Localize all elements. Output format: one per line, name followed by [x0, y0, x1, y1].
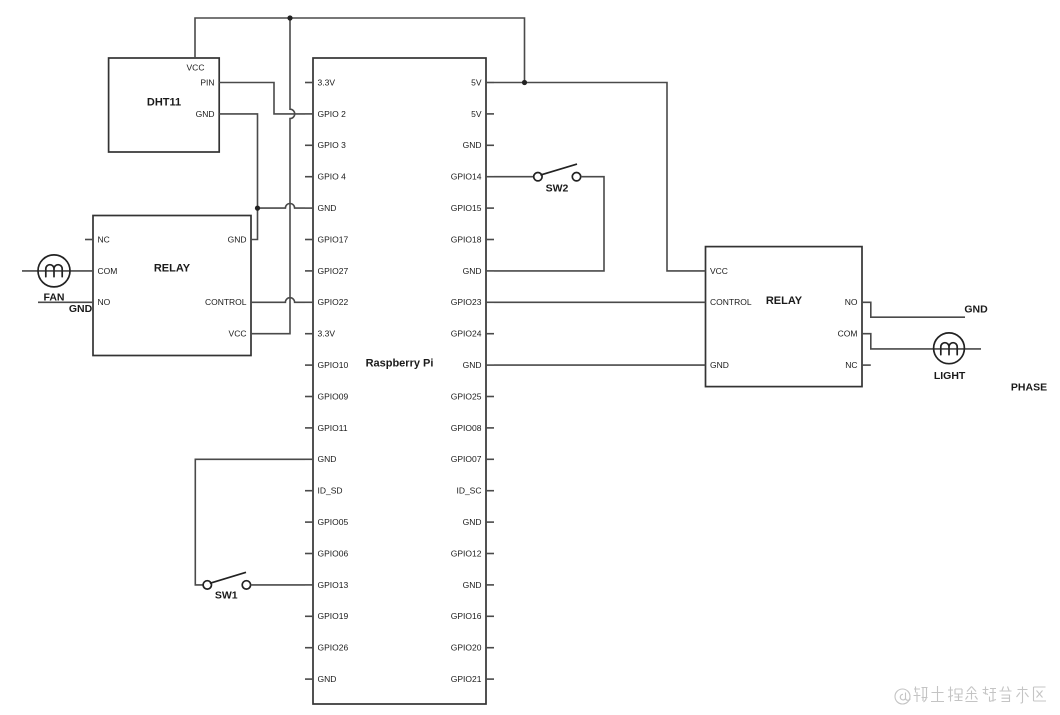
- relay module 1 (fan) box: [93, 216, 251, 356]
- Pi left pin 6 GPIO17: [305, 239, 313, 241]
- Pi left pin 18 GPIO19: [305, 615, 313, 617]
- svg-text:VCC: VCC: [710, 266, 728, 276]
- svg-text:GPIO23: GPIO23: [451, 297, 482, 307]
- svg-text:GND: GND: [228, 234, 247, 244]
- svg-text:GPIO 4: GPIO 4: [318, 172, 347, 182]
- Pi left pin 3 GPIO 3: [305, 144, 313, 146]
- wire DHT11 PIN to GPIO 2: [219, 83, 305, 114]
- Pi right pin 4 GPIO14: [486, 176, 494, 178]
- Pi right pin 14 ID_SC: [486, 490, 494, 492]
- Pi left pin 14 ID_SD: [305, 490, 313, 492]
- svg-text:GND: GND: [318, 203, 337, 213]
- svg-text:GPIO16: GPIO16: [451, 611, 482, 621]
- svg-text:NC: NC: [845, 360, 857, 370]
- svg-text:GPIO13: GPIO13: [318, 580, 349, 590]
- svg-text:CONTROL: CONTROL: [710, 297, 752, 307]
- switch SW2 throw contact: [572, 173, 580, 181]
- Pi left pin 19 GPIO26: [305, 647, 313, 649]
- svg-text:NC: NC: [98, 234, 110, 244]
- svg-text:GPIO22: GPIO22: [318, 297, 349, 307]
- svg-text:GPIO11: GPIO11: [318, 423, 348, 433]
- relay module 2 (light) box: [706, 247, 863, 387]
- Pi right pin 7 GND: [486, 270, 494, 272]
- svg-text:GND: GND: [463, 580, 482, 590]
- Pi left pin 9 3.3V: [305, 333, 313, 335]
- svg-text:5V: 5V: [471, 77, 482, 87]
- relay 2 pin NC label + tick: [862, 364, 871, 366]
- svg-text:GPIO12: GPIO12: [451, 548, 482, 558]
- svg-text:GPIO27: GPIO27: [318, 266, 349, 276]
- Pi left pin 13 GND: [305, 458, 313, 460]
- Pi right pin 5 GPIO15: [486, 207, 494, 209]
- wire rail branch down to relay 1 VCC (hops GPIO2, GND, GPIO22 wires): [251, 18, 295, 334]
- Pi right pin 8 GPIO23: [486, 301, 494, 303]
- svg-text:5V: 5V: [471, 109, 482, 119]
- svg-text:DHT11: DHT11: [147, 96, 181, 108]
- svg-text:GND: GND: [69, 303, 93, 315]
- Pi left pin 17 GPIO13: [305, 584, 313, 586]
- svg-text:GPIO09: GPIO09: [318, 391, 349, 401]
- svg-text:GND: GND: [463, 360, 482, 370]
- svg-text:GND: GND: [710, 360, 729, 370]
- svg-text:GPIO 2: GPIO 2: [318, 109, 347, 119]
- Pi right pin 9 GPIO24: [486, 333, 494, 335]
- svg-text:CONTROL: CONTROL: [205, 297, 247, 307]
- Pi right pin 2 5V: [486, 113, 494, 115]
- svg-text:NO: NO: [98, 297, 111, 307]
- fan motor symbol: [38, 255, 70, 287]
- svg-text:SW1: SW1: [215, 590, 238, 602]
- wire GPIO23 to relay 2 CONTROL: [494, 301, 706, 303]
- Pi right pin 17 GND: [486, 584, 494, 586]
- svg-text:COM: COM: [838, 329, 858, 339]
- fan wire through motor to relay 1 COM: [22, 270, 93, 272]
- svg-text:VCC: VCC: [187, 63, 205, 73]
- svg-text:ID_SD: ID_SD: [318, 486, 343, 496]
- svg-text:LIGHT: LIGHT: [934, 370, 966, 382]
- svg-text:NO: NO: [845, 297, 858, 307]
- Pi left pin 20 GND: [305, 678, 313, 680]
- svg-text:GPIO26: GPIO26: [318, 643, 349, 653]
- svg-text:SW2: SW2: [546, 183, 569, 195]
- svg-text:GPIO10: GPIO10: [318, 360, 349, 370]
- svg-text:3.3V: 3.3V: [318, 77, 336, 87]
- Pi left pin 8 GPIO22: [305, 301, 313, 303]
- Pi right pin 12 GPIO08: [486, 427, 494, 429]
- Pi left pin 4 GPIO 4: [305, 176, 313, 178]
- wire Pi GND loop down to SW1: [195, 459, 305, 585]
- switch SW1 pole contact: [203, 581, 211, 589]
- Pi left pin 12 GPIO11: [305, 427, 313, 429]
- svg-text:GND: GND: [318, 674, 337, 684]
- Pi left pin 5 GND: [305, 207, 313, 209]
- Pi left pin 2 GPIO 2: [305, 113, 313, 115]
- svg-text:GPIO15: GPIO15: [451, 203, 482, 213]
- wire SW2 back to Pi GND pin: [494, 177, 604, 271]
- Pi left pin 1 3.3V: [305, 82, 313, 84]
- switch SW1 throw contact: [242, 581, 250, 589]
- svg-text:RELAY: RELAY: [154, 262, 191, 274]
- wire GND branch to Pi GND pin: [258, 204, 306, 209]
- svg-text:3.3V: 3.3V: [318, 329, 336, 339]
- svg-text:GPIO08: GPIO08: [451, 423, 482, 433]
- Pi right pin 19 GPIO20: [486, 647, 494, 649]
- svg-text:GND: GND: [463, 266, 482, 276]
- svg-text:GPIO14: GPIO14: [451, 172, 482, 182]
- relay 1 pin NC label + tick: [85, 239, 93, 241]
- Pi right pin 15 GND: [486, 521, 494, 523]
- svg-text:GPIO05: GPIO05: [318, 517, 349, 527]
- switch SW1 blade: [210, 572, 246, 583]
- svg-text:GPIO19: GPIO19: [318, 611, 349, 621]
- wire relay 2 NO to GND: [862, 302, 965, 317]
- wire Pi GND to relay 2 GND: [494, 364, 706, 366]
- svg-text:GPIO21: GPIO21: [451, 674, 482, 684]
- wire relay 1 CONTROL to GPIO22: [251, 298, 305, 303]
- svg-text:GND: GND: [463, 140, 482, 150]
- Pi right pin 1 5V: [486, 82, 494, 84]
- svg-text:GPIO24: GPIO24: [451, 329, 482, 339]
- svg-text:PHASE: PHASE: [1011, 382, 1047, 394]
- Pi left pin 15 GPIO05: [305, 521, 313, 523]
- node junction 5V rail: [522, 80, 527, 85]
- switch SW2 pole contact: [534, 173, 542, 181]
- Pi left pin 7 GPIO27: [305, 270, 313, 272]
- wire relay 1 NO stub to GND: [38, 301, 93, 303]
- svg-text:GPIO18: GPIO18: [451, 234, 482, 244]
- node junction GND: [255, 206, 260, 211]
- wire SW1 to GPIO13: [251, 584, 305, 586]
- svg-text:GPIO20: GPIO20: [451, 643, 482, 653]
- switch SW2 blade: [540, 164, 577, 175]
- svg-text:GPIO17: GPIO17: [318, 234, 349, 244]
- Pi right pin 18 GPIO16: [486, 615, 494, 617]
- wire 5V pin to rail to relay 2 VCC: [494, 83, 706, 271]
- svg-text:COM: COM: [98, 266, 118, 276]
- wire DHT11 GND down to relay 1 GND: [219, 114, 257, 240]
- Pi right pin 11 GPIO25: [486, 396, 494, 398]
- Pi left pin 10 GPIO10: [305, 364, 313, 366]
- wire relay 2 COM through light to phase: [862, 334, 981, 349]
- wire DHT11 VCC to top rail down to 5V pin: [195, 18, 525, 83]
- svg-text:GND: GND: [463, 517, 482, 527]
- Pi right pin 13 GPIO07: [486, 458, 494, 460]
- svg-text:GND: GND: [318, 454, 337, 464]
- svg-text:GPIO25: GPIO25: [451, 391, 482, 401]
- svg-text:RELAY: RELAY: [766, 295, 803, 307]
- Pi right pin 6 GPIO18: [486, 239, 494, 241]
- Pi right pin 20 GPIO21: [486, 678, 494, 680]
- svg-text:GND: GND: [964, 303, 988, 315]
- Pi right pin 16 GPIO12: [486, 553, 494, 555]
- DHT11 sensor box: [109, 58, 220, 152]
- svg-text:PIN: PIN: [200, 77, 214, 87]
- svg-text:GND: GND: [196, 109, 215, 119]
- Pi right pin 3 GND: [486, 144, 494, 146]
- svg-text:GPIO06: GPIO06: [318, 548, 349, 558]
- svg-text:VCC: VCC: [229, 329, 247, 339]
- Pi left pin 16 GPIO06: [305, 553, 313, 555]
- wire GPIO14 to SW2: [494, 176, 534, 178]
- svg-text:GPIO07: GPIO07: [451, 454, 482, 464]
- svg-text:Raspberry Pi: Raspberry Pi: [366, 358, 434, 370]
- watermark: [895, 686, 1046, 704]
- svg-text:GPIO 3: GPIO 3: [318, 140, 347, 150]
- Raspberry Pi box: [313, 58, 486, 704]
- light bulb symbol: [934, 333, 965, 364]
- Pi right pin 10 GND: [486, 364, 494, 366]
- svg-text:ID_SC: ID_SC: [456, 486, 481, 496]
- Pi left pin 11 GPIO09: [305, 396, 313, 398]
- node junction top rail branch: [287, 15, 292, 20]
